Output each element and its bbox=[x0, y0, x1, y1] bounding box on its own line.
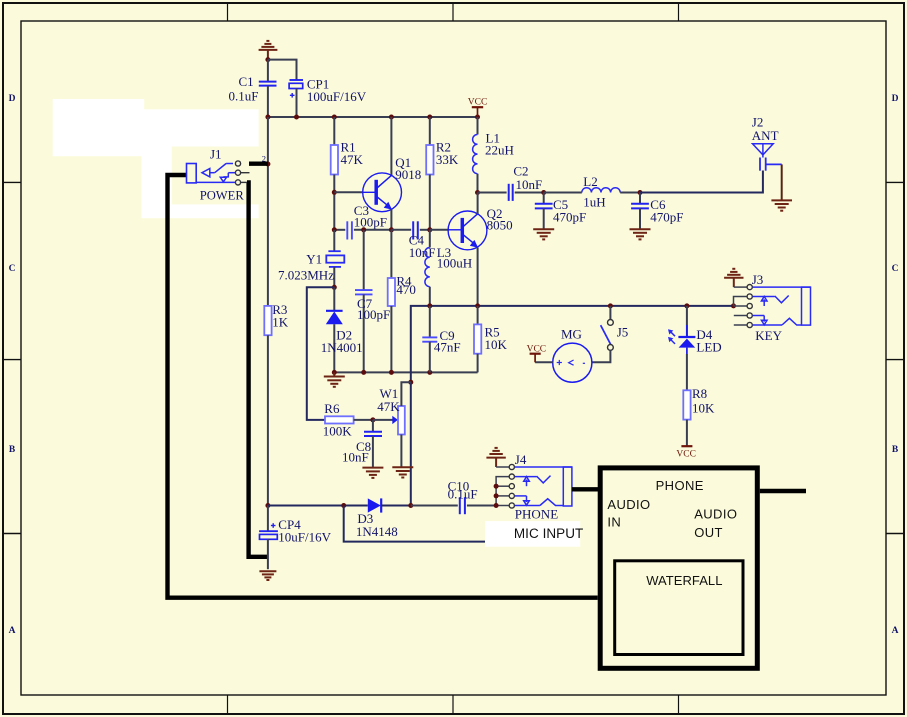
ground below C8 bbox=[362, 468, 383, 478]
ground top above C1 bbox=[259, 41, 278, 60]
wire C1 to rail bbox=[267, 86, 269, 117]
svg-text:ANT: ANT bbox=[752, 128, 779, 143]
svg-text:R8: R8 bbox=[692, 386, 707, 401]
wire ground to CP1 bbox=[268, 60, 297, 80]
wire C3 row left bbox=[334, 229, 345, 231]
resistor R5 bbox=[477, 306, 479, 325]
capacitor C6 bbox=[639, 193, 641, 204]
svg-text:0.1uF: 0.1uF bbox=[229, 89, 259, 104]
svg-text:A: A bbox=[892, 626, 899, 636]
svg-text:9018: 9018 bbox=[395, 167, 421, 182]
white redaction overlay center bbox=[142, 109, 259, 218]
connector J2 bbox=[760, 158, 782, 171]
ground below C5 bbox=[533, 229, 554, 239]
thick lead sound card box right bbox=[760, 489, 806, 493]
svg-text:1uH: 1uH bbox=[583, 195, 605, 210]
diode D2 bbox=[333, 287, 335, 310]
thick power lead J1 pin3 to CP4 ground bbox=[247, 182, 268, 556]
resistor R2 bbox=[429, 117, 431, 145]
svg-text:MG: MG bbox=[561, 327, 582, 342]
wire C2 to C5 node bbox=[515, 192, 544, 194]
thick lead J4 to sound card box bbox=[572, 487, 600, 491]
potentiometer W1 bbox=[392, 416, 398, 424]
wire to W1 wiper bbox=[373, 419, 393, 421]
connector J3 bbox=[734, 286, 747, 288]
ground below J2 bbox=[771, 200, 792, 210]
transistor Q1 bbox=[363, 173, 402, 212]
svg-text:10nF: 10nF bbox=[409, 245, 436, 260]
wire audio row bbox=[268, 505, 368, 507]
power port VCC below R8 bbox=[681, 445, 692, 447]
svg-text:470pF: 470pF bbox=[650, 209, 683, 224]
svg-text:22uH: 22uH bbox=[485, 142, 514, 157]
svg-text:10nF: 10nF bbox=[516, 177, 543, 192]
resistor R1 bbox=[333, 117, 335, 145]
svg-text:J5: J5 bbox=[617, 324, 629, 339]
svg-text:10K: 10K bbox=[485, 337, 508, 352]
node Q1 emitter row bbox=[389, 227, 394, 232]
svg-text:J3: J3 bbox=[752, 272, 764, 287]
svg-text:POWER: POWER bbox=[200, 189, 245, 203]
node audio row W1 column bbox=[408, 503, 413, 508]
svg-text:10K: 10K bbox=[692, 401, 715, 416]
node C4 right / L3 top bbox=[427, 227, 432, 232]
resistor R6 bbox=[325, 416, 354, 423]
wire mic input branch bbox=[344, 506, 489, 542]
sound card box bbox=[600, 468, 757, 668]
node W1 top junction bbox=[408, 380, 413, 385]
node C6 top bbox=[638, 190, 643, 195]
svg-text:100pF: 100pF bbox=[354, 215, 387, 230]
capacitor CP1 bbox=[289, 80, 303, 98]
microphone MG bbox=[553, 343, 592, 382]
svg-text:Y1: Y1 bbox=[306, 252, 322, 267]
svg-text:PHONE: PHONE bbox=[656, 478, 704, 493]
svg-text:D: D bbox=[9, 94, 16, 104]
wire to C2 bbox=[478, 192, 507, 194]
svg-text:10uF/16V: 10uF/16V bbox=[278, 530, 331, 545]
connector J1 POWER bbox=[187, 164, 197, 183]
svg-text:1K: 1K bbox=[272, 315, 289, 330]
svg-text:8050: 8050 bbox=[487, 218, 513, 233]
ground below CP4 bbox=[259, 571, 276, 580]
svg-text:VCC: VCC bbox=[527, 345, 547, 355]
svg-text:LED: LED bbox=[696, 340, 721, 355]
node Y1 top bbox=[361, 227, 366, 232]
ground below W1 bbox=[392, 467, 413, 477]
svg-text:100K: 100K bbox=[323, 424, 353, 439]
wire R6 loop from Y1 node bbox=[307, 287, 335, 420]
node C3 left bbox=[332, 227, 337, 232]
white redaction overlay left bbox=[53, 99, 145, 156]
wire C4 to Q2 base bbox=[430, 229, 449, 231]
wire Q2 emitter down bbox=[477, 248, 479, 306]
capacitor C8 bbox=[372, 420, 374, 432]
inductor L2 bbox=[582, 188, 620, 193]
ground below D2 row bbox=[324, 372, 345, 386]
svg-text:10nF: 10nF bbox=[342, 449, 369, 464]
wire Q1 emitter down bbox=[390, 209, 392, 229]
resistor R3 bbox=[267, 117, 269, 306]
svg-text:100uH: 100uH bbox=[437, 255, 472, 270]
svg-text:B: B bbox=[9, 445, 16, 455]
node R1-Q1 base junction bbox=[332, 190, 337, 195]
wire C3 to Y1 node bbox=[354, 229, 392, 231]
wire J2 pin2 to ground bbox=[781, 164, 783, 200]
wire Q1 base bbox=[334, 191, 363, 193]
svg-text:A: A bbox=[9, 626, 16, 636]
svg-text:7.023MHz: 7.023MHz bbox=[278, 267, 334, 282]
svg-text:100uF/16V: 100uF/16V bbox=[307, 89, 367, 104]
capacitor C4 bbox=[391, 229, 411, 231]
wire bottom ground row bbox=[334, 371, 477, 373]
svg-text:MIC INPUT: MIC INPUT bbox=[514, 526, 583, 541]
thick power lead J1 body loop bbox=[168, 175, 598, 598]
inductor L3 bbox=[429, 230, 431, 248]
svg-text:470: 470 bbox=[396, 282, 416, 297]
svg-text:0.1uF: 0.1uF bbox=[448, 487, 478, 502]
svg-text:IN: IN bbox=[607, 514, 621, 529]
switch J5 bbox=[609, 306, 611, 320]
capacitor CP4 bbox=[267, 506, 269, 532]
capacitor C5 bbox=[543, 193, 545, 204]
wire top power rail bbox=[268, 116, 478, 118]
svg-text:KEY: KEY bbox=[755, 328, 782, 343]
svg-text:B: B bbox=[892, 445, 899, 455]
transistor Q2 bbox=[448, 211, 487, 250]
svg-text:AUDIO: AUDIO bbox=[694, 507, 737, 522]
wire C5 to L2 bbox=[544, 192, 582, 194]
wire CP1 to rail bbox=[296, 88, 298, 117]
svg-text:470pF: 470pF bbox=[553, 209, 586, 224]
ground above J4 bbox=[486, 448, 505, 467]
svg-text:C: C bbox=[892, 264, 899, 274]
svg-text:VCC: VCC bbox=[676, 449, 696, 459]
LED D4 arrows bbox=[668, 329, 675, 344]
svg-text:VCC: VCC bbox=[468, 98, 488, 108]
node C5 top bbox=[541, 190, 546, 195]
ground above J3 bbox=[724, 269, 743, 287]
svg-text:47nF: 47nF bbox=[434, 339, 461, 354]
wire C6 to J2 bbox=[640, 171, 763, 193]
connector J4 PHONE bbox=[496, 466, 509, 468]
LED D4 bbox=[686, 306, 688, 337]
node row306 junctions bbox=[427, 303, 736, 308]
resistor R4 bbox=[390, 230, 392, 278]
wire ground to C1 bbox=[267, 60, 269, 81]
ground below C6 bbox=[630, 229, 651, 239]
svg-text:47K: 47K bbox=[341, 152, 364, 167]
capacitor C7 bbox=[363, 230, 365, 290]
capacitor C3 bbox=[347, 221, 352, 239]
antenna symbol J2 bbox=[753, 144, 774, 158]
node Y1 bottom bbox=[332, 285, 337, 290]
svg-text:1N4148: 1N4148 bbox=[356, 524, 398, 539]
cream patch over J1 area bbox=[172, 147, 261, 205]
svg-text:J1: J1 bbox=[210, 147, 222, 162]
node: ground junction bbox=[265, 57, 270, 62]
capacitor C1 bbox=[259, 82, 277, 86]
node CP4 top bbox=[265, 503, 270, 508]
thick power lead J1 pin1 bbox=[249, 161, 268, 165]
wire MG left to VCC bbox=[535, 361, 553, 363]
svg-text:100pF: 100pF bbox=[357, 307, 390, 322]
power port VCC at MG bbox=[530, 354, 541, 363]
node J1 feed bbox=[265, 162, 270, 167]
svg-text:PHONE: PHONE bbox=[515, 506, 558, 521]
svg-text:D: D bbox=[892, 94, 899, 104]
node row junctions bbox=[332, 370, 433, 375]
wire W1 column down bbox=[410, 382, 412, 505]
svg-text:J4: J4 bbox=[515, 452, 527, 467]
wire Q1 collector bbox=[390, 117, 392, 176]
svg-text:OUT: OUT bbox=[694, 525, 723, 540]
svg-text:L2: L2 bbox=[583, 174, 597, 189]
svg-text:1N4001: 1N4001 bbox=[321, 340, 363, 355]
svg-text:47K: 47K bbox=[377, 399, 400, 414]
wire keyed row y306 bbox=[411, 306, 734, 382]
svg-text:C: C bbox=[9, 264, 16, 274]
svg-text:R6: R6 bbox=[324, 401, 340, 416]
power port VCC top bbox=[472, 107, 483, 116]
svg-text:C1: C1 bbox=[239, 74, 254, 89]
svg-text:AUDIO: AUDIO bbox=[607, 497, 650, 512]
waterfall box bbox=[615, 561, 743, 655]
resistor R8 bbox=[686, 354, 688, 390]
node mic branch bbox=[341, 503, 346, 508]
wire L2 to C6 bbox=[620, 192, 640, 194]
svg-text:2: 2 bbox=[262, 153, 266, 163]
node C8 top bbox=[370, 417, 375, 422]
inductor L1 bbox=[477, 117, 479, 135]
node L1 bottom bbox=[475, 190, 480, 195]
crystal Y1 bbox=[333, 230, 335, 251]
capacitor C10 bbox=[411, 505, 458, 507]
capacitor C9 bbox=[429, 306, 431, 337]
wire Q2 collector bbox=[477, 193, 479, 215]
white MIC INPUT overlay bbox=[485, 521, 580, 547]
svg-text:33K: 33K bbox=[436, 152, 459, 167]
capacitor C2 bbox=[509, 184, 513, 201]
node rail junctions bbox=[265, 115, 480, 120]
diode D3 bbox=[368, 498, 381, 512]
svg-text:WATERFALL: WATERFALL bbox=[646, 573, 722, 588]
